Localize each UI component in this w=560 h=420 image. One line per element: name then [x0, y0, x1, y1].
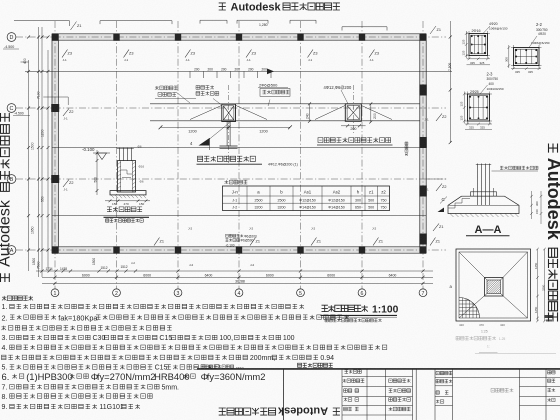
leader note rebar mid — [196, 86, 200, 90]
title block top border — [197, 368, 560, 370]
detail A dim 1200 line — [161, 126, 291, 128]
top eave bracket 2 — [100, 20, 172, 22]
bottom dim line 1 segments — [36, 269, 433, 272]
wall poche bottom — [52, 247, 426, 253]
title block cell row3 col1 — [344, 398, 348, 402]
detail A I-beam flange — [220, 145, 238, 147]
column Z left wall axis C — [51, 104, 59, 112]
axis B extension right — [426, 178, 448, 180]
left dim label 550 — [41, 196, 45, 202]
right wall tiny vertical note — [405, 142, 408, 156]
column section 2-1 left dim — [465, 31, 467, 58]
column section 2-3 bottom dim — [465, 123, 492, 125]
callout Z3 bay 3 — [185, 50, 191, 58]
grid axis line 2 vertical — [116, 21, 118, 289]
main title subnote — [325, 319, 328, 322]
column Z top axis 1 — [52, 33, 58, 40]
anchor detail pier — [118, 161, 136, 193]
detail A column square — [222, 104, 236, 121]
table title — [225, 180, 229, 184]
axis bubble 1 bottom — [51, 289, 59, 297]
column Z bottom axis 4 — [236, 246, 242, 253]
footing plan inner square — [459, 252, 528, 318]
anchor detail base hatch — [111, 195, 146, 198]
axis bubble 4 bottom — [235, 289, 243, 297]
anchor detail base plate — [110, 191, 146, 195]
anchor detail side hatch — [118, 162, 136, 193]
callout Z3 bay 5 — [308, 50, 314, 58]
grid axis line D horizontal — [16, 36, 446, 38]
grid axis line A horizontal — [16, 249, 446, 251]
leader boxed label — [260, 89, 290, 97]
grid axis line 1 vertical — [54, 21, 56, 289]
footing plan diagonals — [459, 252, 487, 280]
detail B centerline — [352, 85, 354, 135]
right wall double line — [419, 34, 421, 253]
axis C beam line lower — [150, 120, 420, 122]
footing plan dim right b — [544, 249, 546, 321]
callout Z3 bay 6 — [369, 50, 375, 58]
column section 2-2 bottom dim — [511, 68, 541, 70]
leader note rebar left — [155, 86, 159, 90]
beam haunch diagonal 1 — [190, 106, 222, 120]
Autodesk banner left rotated — [0, 113, 14, 282]
note line 3 — [2, 326, 7, 331]
column Z bottom axis 6 — [359, 246, 365, 253]
left dim label 1500 — [31, 142, 35, 150]
right wall callout Z2 b — [436, 184, 442, 192]
note line 7 tail label — [201, 365, 204, 368]
bottom dim line 2 bays — [42, 273, 433, 279]
detail A centerline — [228, 85, 230, 165]
title block cell row4 col1 — [344, 407, 348, 411]
main title underline — [321, 314, 398, 316]
footing plan center hatch — [487, 280, 501, 294]
grid axis line 5 vertical — [300, 21, 302, 289]
title block project cell name — [436, 380, 439, 383]
leader lines to wall — [213, 99, 221, 105]
title block cell row1 col1 — [343, 379, 347, 383]
title block cell row2 col2 — [389, 389, 393, 393]
title block cell row3 col2 — [389, 398, 393, 402]
title block cell unit name — [345, 370, 349, 374]
column section 2-1 bottom dim — [467, 58, 491, 60]
footing plan dim right a — [537, 249, 539, 321]
right dim label 7500 — [448, 63, 452, 71]
axis bubble 7 bottom — [419, 289, 427, 297]
column section 2-1 body — [469, 34, 488, 56]
bottom dim rotated 1500 a — [32, 258, 36, 265]
title block verticals — [342, 369, 546, 420]
axis bubble C left — [7, 104, 16, 113]
column Z bottom axis 2 — [113, 246, 119, 253]
A-A rebar verticals — [476, 164, 491, 206]
callout Z3 bay 1 — [62, 50, 68, 58]
right dimension line — [449, 21, 451, 143]
left dim label 400 — [23, 58, 27, 64]
anchor detail rebar verticals — [117, 148, 134, 162]
A-A left steps — [449, 199, 471, 209]
title block drawing title faint — [491, 388, 495, 392]
title block project cell top bold — [436, 371, 439, 374]
callout Z3 bay 2 — [124, 50, 130, 58]
A-A trapezoid footing — [448, 196, 519, 213]
table header row — [232, 190, 387, 195]
axis bubble 3 bottom — [174, 289, 182, 297]
scan noise overlay — [0, 0, 1, 1]
interior strip line lower — [52, 215, 426, 217]
column Z bottom axis 5 — [297, 246, 303, 253]
left dim label 7500 — [37, 261, 41, 269]
column section 2-2 body — [514, 48, 540, 66]
detail B right dim 200 — [370, 104, 372, 122]
column Z top axis 7 — [420, 33, 426, 40]
anchor detail label underlined — [107, 207, 112, 212]
wall poche left — [52, 34, 58, 253]
main title text — [322, 305, 328, 311]
grid axis line 6 vertical — [361, 21, 363, 289]
callout Z1 lower 3 — [311, 238, 317, 246]
stamp mark small — [545, 315, 554, 318]
callout Z2 left wall C — [63, 109, 69, 117]
axis bubble 2 bottom — [113, 289, 121, 297]
J-2 labels above bottom wall — [188, 227, 376, 231]
interior strip line upper — [52, 147, 426, 149]
top eave bracket 6 — [342, 26, 387, 28]
left dim label 1200 — [41, 129, 45, 137]
callout Z1 lower 2 — [250, 238, 256, 246]
callout Z2 left wall B — [63, 180, 69, 188]
A-A base plate and bolts — [471, 192, 497, 196]
strip footing dim ticks 200x6 — [190, 67, 271, 78]
Autodesk banner bottom rotated — [219, 405, 340, 417]
top eave bracket 1 — [14, 20, 70, 22]
title block cell row1 col2 — [389, 379, 393, 383]
left dimension line b — [38, 27, 40, 277]
top eave bracket 3 — [200, 19, 227, 21]
axis bubble 6 bottom — [358, 289, 366, 297]
beam haunch diagonal 2 — [236, 106, 267, 120]
footing plan center column square — [485, 278, 504, 297]
top eave bracket 4 — [237, 19, 268, 21]
footing plan outer square — [456, 249, 531, 321]
column Z top axis 6 — [359, 33, 365, 40]
title block row lines — [342, 377, 560, 416]
title block cell row4 col2 — [389, 407, 393, 411]
A-A leader label — [492, 170, 539, 172]
callout Z1 lower 5 — [430, 238, 436, 246]
callout bracket axis C — [43, 96, 68, 98]
title block stage label — [436, 400, 439, 403]
column Z top axis 4 — [236, 33, 242, 40]
anchor detail sublabel — [106, 219, 109, 222]
column Z bottom axis 1 — [52, 246, 58, 253]
callout Z1 lower 1 — [154, 238, 160, 246]
bottom dim rotated 1500 b — [92, 258, 96, 265]
column Z right wall 1 — [419, 85, 426, 96]
anchor detail left dim — [96, 150, 98, 195]
beam haunch diagonal 4 — [362, 106, 393, 120]
anchor detail pocket steps — [121, 169, 127, 171]
title block header bold text — [298, 363, 302, 367]
table row J-1 — [232, 198, 386, 202]
detail A section flag 4 — [199, 138, 210, 146]
left dim label 7100 — [37, 91, 41, 99]
column Z top axis 5 — [297, 33, 303, 40]
notes header — [2, 296, 7, 301]
axis bubble B left — [7, 175, 16, 184]
right wall callout Z2 a — [436, 114, 442, 122]
eave line top-left — [25, 70, 452, 72]
detail A I-beam web — [226, 122, 228, 147]
title block cell row2 col1 — [344, 389, 348, 393]
column Z bottom axis 3 — [175, 246, 181, 253]
detail A label underlined — [198, 156, 203, 161]
top wall double line — [52, 33, 426, 35]
column section 2-3 left dim — [463, 92, 465, 124]
beam haunch diagonal 3 — [315, 106, 345, 120]
axis C beam line upper — [150, 103, 420, 105]
table grid — [223, 186, 390, 211]
callout Z3 bay 4 — [246, 50, 252, 58]
axis bubble D left — [7, 33, 16, 42]
axis bubble A left — [7, 246, 16, 255]
title block right column texts — [548, 371, 551, 374]
A-A footing hatch — [450, 214, 519, 218]
column Z bottom axis 7 — [420, 246, 426, 253]
anchor detail bottom dim — [105, 200, 150, 202]
A-A small flag — [438, 208, 445, 213]
top callout Z1 right — [430, 26, 436, 34]
title block drawing name label — [436, 391, 439, 394]
column section 2-3 body — [468, 94, 490, 121]
column Z right wall 2 — [419, 137, 426, 148]
grid axis line C horizontal — [16, 107, 446, 109]
right wall callout Z1 c — [433, 224, 439, 232]
note line 6 — [2, 355, 7, 360]
left dimension line a — [28, 60, 30, 271]
left dimension ticks — [27, 36, 50, 252]
Autodesk banner right rotated — [544, 144, 560, 322]
column Z top axis 2 — [113, 33, 119, 40]
column Z top axis 3 — [175, 33, 181, 40]
detail B label underlined — [318, 138, 323, 143]
detail B dim 200 — [341, 125, 366, 127]
column Z right wall 3 — [419, 186, 426, 197]
left dim label 1950 — [31, 226, 35, 234]
grid axis line 4 vertical — [238, 21, 240, 289]
bottom wall double line — [52, 246, 426, 248]
grid axis line 7 vertical — [422, 21, 424, 289]
wall poche top — [52, 34, 426, 40]
top eave bracket 5 — [290, 19, 316, 21]
grid axis line B horizontal — [16, 178, 446, 180]
column right wall mid-low — [419, 234, 426, 245]
axis bubble 5 bottom — [297, 289, 305, 297]
detail B column square — [345, 104, 361, 122]
grid axis line 3 vertical — [177, 21, 179, 289]
left wall double line — [51, 34, 53, 253]
table row J-2 — [232, 206, 386, 210]
left dimension line c — [41, 27, 43, 277]
detail B left dim 240 — [309, 104, 311, 122]
wall poche right — [420, 34, 426, 253]
column section 2-2 left dim — [508, 45, 510, 68]
column Z left wall axis B — [51, 175, 59, 183]
faint area bottom line — [475, 353, 556, 355]
footing plan quarter grid — [459, 298, 480, 319]
left dimension line d — [47, 50, 49, 271]
callout Z1 lower 4 — [373, 238, 379, 246]
title block left edge — [283, 369, 285, 420]
top callout Z1 left — [71, 22, 77, 31]
Autodesk banner top — [219, 1, 340, 13]
A-A right dims — [531, 191, 533, 219]
tiny leader cluster above bottom wall — [226, 234, 229, 237]
bottom dim line 3 total — [42, 282, 433, 284]
